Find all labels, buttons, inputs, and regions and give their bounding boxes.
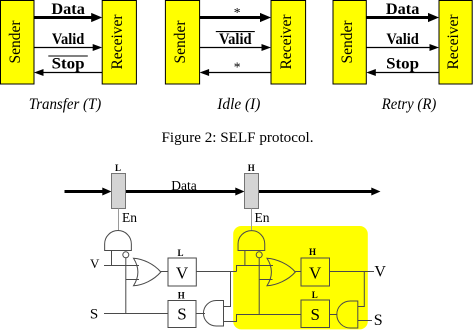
wire V2 output to node V	[330, 271, 375, 273]
arrowhead Data output	[371, 188, 380, 196]
wire V1 step up into stage H	[237, 266, 274, 272]
svg-text:L: L	[115, 163, 121, 173]
wire node V1 down to and-L	[224, 272, 231, 307]
wire or-H output	[295, 271, 301, 273]
wire V1 output	[196, 271, 236, 273]
latch H	[245, 174, 259, 209]
wire EnH input from V line	[244, 251, 246, 266]
wire node S input	[358, 320, 372, 322]
bubble of and-gate EnH (enable stage H)	[256, 252, 262, 258]
svg-text:S: S	[177, 305, 186, 324]
V latch stage L	[168, 258, 196, 286]
wire S1 input from and-L	[196, 313, 205, 315]
V latch stage H	[301, 258, 330, 286]
svg-text:Sender: Sender	[172, 20, 189, 64]
svg-text:Valid: Valid	[219, 31, 252, 48]
signal wire (I)	[200, 69, 271, 76]
svg-text:Stop: Stop	[386, 55, 419, 72]
S latch stage L	[168, 301, 196, 328]
wire Data segment 1	[65, 190, 106, 193]
svg-text:H: H	[248, 163, 255, 173]
svg-text:Receiver: Receiver	[445, 14, 462, 70]
svg-text:S: S	[374, 312, 383, 329]
svg-text:Data: Data	[51, 1, 85, 18]
svg-text:V: V	[90, 256, 100, 271]
svg-text:Sender: Sender	[7, 20, 24, 64]
Stop wire (R)	[366, 69, 439, 76]
Valid wire (I)	[200, 44, 271, 51]
svg-text:Stop: Stop	[52, 55, 85, 72]
svg-text:V: V	[309, 263, 322, 282]
wire or-L output	[161, 271, 168, 273]
wire EnL inverted input to S line	[125, 258, 127, 314]
svg-text:Idle (I): Idle (I)	[216, 96, 260, 113]
svg-text:V: V	[374, 263, 386, 280]
svg-text:H: H	[309, 247, 316, 257]
svg-text:Transfer (T): Transfer (T)	[29, 96, 102, 113]
svg-text:Data: Data	[171, 178, 196, 193]
wire Data segment 3	[259, 190, 375, 193]
svg-text:V: V	[176, 263, 189, 282]
arrowhead Data into latch L	[102, 188, 111, 196]
svg-text:Valid: Valid	[52, 31, 85, 48]
sender box (R)	[333, 1, 366, 85]
svg-text:Data: Data	[386, 1, 420, 18]
Valid wire (R)	[366, 44, 439, 51]
wire EnH inverted input to S2 line	[258, 258, 260, 315]
wire or-H lower input	[259, 279, 272, 281]
sender box (I)	[165, 1, 199, 85]
wire and-L lower input from S2 output	[224, 315, 302, 322]
or-gate stage H	[267, 258, 295, 286]
svg-text:L: L	[177, 248, 183, 258]
Valid wire (T)	[34, 44, 102, 51]
svg-text:Receiver: Receiver	[109, 14, 126, 70]
Data wire (R)	[366, 13, 439, 22]
receiver box (R)	[439, 1, 472, 85]
wire V input line	[104, 265, 139, 267]
highlight box (stage H)	[233, 226, 368, 329]
svg-text:Sender: Sender	[339, 20, 356, 64]
Stop wire (T)	[34, 69, 102, 76]
latch L	[112, 174, 126, 209]
signal wire (I)	[200, 13, 271, 22]
svg-text:Figure 2: SELF protocol.: Figure 2: SELF protocol.	[162, 130, 314, 146]
svg-text:Retry (R): Retry (R)	[381, 96, 436, 113]
Data wire (T)	[34, 13, 102, 22]
svg-text:S: S	[90, 306, 98, 322]
arrowhead Data into latch H	[235, 188, 244, 196]
wire node V2 down to and-H	[358, 272, 365, 307]
wire En L	[118, 209, 120, 231]
wire En H	[251, 209, 253, 231]
Stop label (T)	[48, 55, 88, 72]
svg-text:En: En	[122, 210, 137, 225]
wire or-L lower input	[126, 279, 139, 281]
or-gate stage L	[134, 258, 161, 286]
and-gate stage H	[337, 301, 358, 328]
wire Data segment 2	[126, 190, 239, 193]
receiver box (I)	[271, 1, 306, 85]
receiver box (T)	[102, 1, 136, 85]
wire S output line	[104, 313, 168, 315]
S latch stage H	[301, 300, 330, 328]
svg-text:Valid: Valid	[386, 31, 419, 48]
and-gate EnL (enable stage L)	[105, 231, 132, 251]
svg-text:En: En	[255, 210, 270, 225]
bubble of and-gate EnL (enable stage L)	[123, 252, 129, 258]
sender box (T)	[1, 1, 35, 85]
wire EnL input from V line	[111, 251, 113, 266]
and-gate stage L	[203, 301, 223, 327]
and-gate EnH (enable stage H)	[238, 231, 265, 251]
svg-text:Receiver: Receiver	[278, 14, 295, 70]
svg-text:L: L	[312, 290, 318, 300]
Valid label (I)	[216, 31, 255, 48]
wire and-H output to S2 latch	[330, 314, 338, 316]
svg-text:S: S	[310, 305, 319, 324]
svg-text:H: H	[178, 290, 185, 300]
